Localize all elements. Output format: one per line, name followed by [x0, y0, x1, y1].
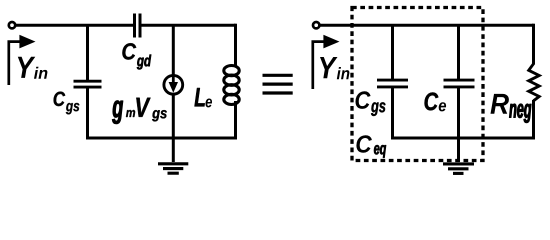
wire: top rail (right circuit) — [320, 24, 534, 27]
current source gmVgs — [164, 75, 183, 94]
capacitor C_gd — [135, 14, 141, 38]
wire: Rneg branch lower — [532, 100, 535, 140]
wire: Ce branch upper — [457, 25, 460, 79]
label C_gs (right) — [356, 91, 386, 116]
wire: top rail, Cgd to Le branch — [140, 24, 236, 27]
dashed box C_eq — [352, 8, 483, 161]
label gmVgs — [112, 98, 167, 124]
wire: ground stub (left) — [172, 138, 175, 162]
ground (left) — [158, 164, 188, 173]
wire: bottom rail (right circuit) — [391, 137, 534, 140]
label Y_in (right) — [320, 57, 349, 79]
label L_e — [195, 88, 212, 107]
wire: Cgs branch lower (right) — [391, 87, 394, 140]
capacitor C_gs (left) — [74, 81, 102, 87]
label C_eq — [356, 135, 386, 158]
wire: Rneg branch upper — [532, 24, 535, 65]
capacitor C_gs (right) — [377, 80, 408, 87]
wire: Ce branch lower — [457, 87, 460, 138]
label C_e — [425, 92, 447, 111]
wire: gmVgs branch upper — [172, 25, 175, 75]
label Y_in (left) — [18, 57, 48, 79]
equivalence sign — [263, 75, 293, 93]
wire: gmVgs branch lower — [172, 95, 175, 140]
wire: ground stub (right) — [457, 138, 460, 162]
label R_neg — [491, 94, 532, 123]
wire: left top rail, terminal to Cgd — [16, 24, 135, 27]
wire: Le branch upper — [234, 24, 237, 67]
wire: Cgs branch upper (right) — [391, 25, 394, 79]
capacitor C_e — [444, 80, 475, 87]
resistor R_neg — [529, 64, 540, 101]
wire: bottom rail (left circuit) — [86, 137, 237, 140]
label C_gd — [122, 43, 151, 69]
terminal (left input port) — [9, 22, 15, 28]
wire: Cgs branch lower (left) — [86, 87, 89, 139]
terminal (right input port) — [313, 22, 319, 28]
ground (right) — [443, 164, 474, 174]
Yin arrow (right) — [313, 35, 340, 89]
wire: Cgs branch upper (left) — [86, 25, 89, 80]
wire: Le branch lower — [234, 101, 237, 138]
Yin arrow (left) — [9, 35, 36, 85]
inductor L_e — [224, 66, 239, 105]
label C_gs (left) — [54, 92, 80, 115]
